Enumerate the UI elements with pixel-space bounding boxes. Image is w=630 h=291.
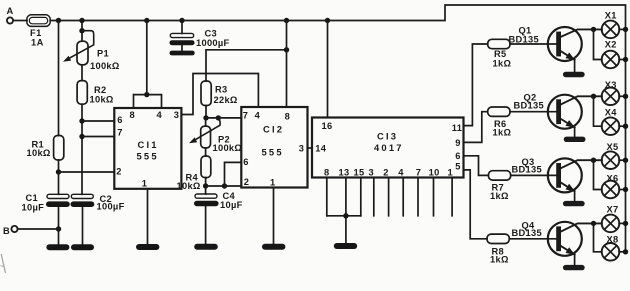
svg-text:BD135: BD135 [512,228,542,238]
transistor Q1 [509,26,602,78]
lamp X2 [602,40,629,69]
wire R3 top feed from CI2 pin 8 line [206,50,287,81]
svg-text:4: 4 [398,168,404,178]
resistor R1 [54,136,64,161]
wire CI2 pin 3 to CI3 pin 14 [308,147,313,149]
wire CI3 pin 16 to rail [327,21,329,118]
node A terminal [7,17,13,23]
ground below C1 [46,244,69,250]
svg-text:100µF: 100µF [97,202,125,212]
svg-text:BD135: BD135 [512,165,542,175]
svg-text:4: 4 [255,110,261,120]
lamp X6 [602,174,629,199]
wire CI3 pin 11 to R5 [464,44,488,126]
wire bracket joining CI1 pins 8 and 4 [134,95,162,108]
lamp X5 [602,142,629,169]
resistor R5 [488,39,510,48]
node junction on pin 8 line [284,47,289,52]
resistor R2 [77,81,87,105]
svg-text:A: A [7,6,14,16]
wire R5 to Q1 base [510,43,557,45]
wire node to CI2 pin 2 [206,185,242,187]
svg-text:1A: 1A [31,38,44,48]
svg-text:1: 1 [142,178,147,188]
op-amp U2 box: IC CI2 555 [241,107,307,188]
wire R8 to Q4 base [509,238,557,240]
potentiometer P2 [205,118,207,126]
svg-text:1kΩ: 1kΩ [490,255,509,265]
svg-text:X5: X5 [607,142,619,152]
svg-text:BD135: BD135 [514,100,544,110]
svg-text:1kΩ: 1kΩ [493,127,512,137]
capacitor C2 [71,194,93,198]
resistor R6 [488,107,510,116]
svg-text:X7: X7 [607,205,619,215]
svg-text:CI3: CI3 [377,131,398,142]
svg-text:X4: X4 [605,108,618,118]
svg-text:16: 16 [322,121,333,131]
wire rail down to R1 [58,21,60,136]
svg-text:10µF: 10µF [220,200,243,210]
node junction pin 6 [79,118,84,123]
node B terminal [11,226,17,232]
wire R1 to node [58,160,60,194]
ground below C2 [71,244,94,250]
svg-text:13: 13 [339,168,350,178]
wire branch to X8 [594,223,602,251]
wire R6 to Q2 base [510,111,557,113]
wire B to C1 node [18,228,59,230]
ground below CI2 [262,244,285,250]
svg-text:10kΩ: 10kΩ [90,94,114,104]
svg-text:P1: P1 [97,49,109,59]
wire branch to CI2 pin 6 [225,162,242,186]
resistor R4 [201,156,211,178]
wire CI3 pin 4 stub [402,178,404,216]
wire CI3 pin 3 stub [373,178,375,216]
wire R7 to Q3 base [511,174,557,176]
capacitor C3 [181,21,183,34]
transistor Q2 [514,93,602,142]
lamp X8 [602,234,629,260]
wire branch to X4 [594,96,602,126]
svg-text:8: 8 [324,168,329,178]
wire joining pins 8,13,15 [327,215,361,217]
wire node to CI2 pin 7 [206,117,241,119]
wire branch to X6 [594,160,602,189]
svg-text:2: 2 [383,168,388,178]
node junction rail-R1 [56,18,61,23]
node bracket junction [144,92,149,97]
wire rail down to P1 [81,21,83,42]
capacitor C1 [47,194,69,198]
wire CI3 pin 7 stub [417,178,419,216]
svg-text:CI1: CI1 [138,139,159,150]
node junction P2 wiper [216,115,221,120]
svg-text:555: 555 [262,146,284,157]
node junction R4/C4 [203,183,208,188]
svg-text:2: 2 [244,177,249,187]
svg-text:F1: F1 [30,28,42,38]
resistor R3 [201,81,211,106]
ground below CI3 [334,243,357,249]
IC CI3 4017 box [312,118,464,178]
scan artifact mark bottom-left [1,254,5,273]
svg-text:1000µF: 1000µF [196,38,230,48]
wire CI3 pin 2 stub [388,178,390,216]
svg-text:1kΩ: 1kΩ [490,191,509,201]
wire CI1 pin 1 to ground [147,189,149,244]
lamp X3 [602,80,629,105]
wire pin 2 of CI1 [59,171,115,173]
svg-text:7: 7 [243,110,248,120]
wire CI2 pin 8 to rail [286,21,288,108]
svg-text:CI2: CI2 [263,124,284,135]
node R1/C1/pin2 junction [56,169,61,174]
ground below C3 [170,51,195,56]
svg-text:6: 6 [117,115,122,125]
op-amp U1 box: IC CI1 555 [114,108,181,189]
svg-text:10: 10 [429,168,440,178]
node junction X5/X6 branch [591,158,596,163]
svg-text:C3: C3 [205,28,217,38]
svg-text:1kΩ: 1kΩ [493,59,512,69]
node junction R3/P2 [203,115,208,120]
svg-text:B: B [3,226,10,236]
node P1 wiper junction [79,28,84,33]
svg-text:5: 5 [455,161,460,171]
svg-text:8: 8 [130,110,135,120]
lamp X7 [602,205,629,233]
svg-text:3: 3 [369,168,374,178]
wire CI3 pin 10 stub [433,178,435,216]
svg-text:2: 2 [116,167,121,177]
node junction rail-CI2 pin 8 [284,18,289,23]
wire CI3 pin 6 to R7 [464,156,489,176]
lamp X1 [602,10,629,38]
wire pin 7 of CI1 [82,136,114,138]
svg-text:1: 1 [448,168,453,178]
ground below C4 [194,244,218,250]
svg-text:6: 6 [243,157,248,167]
svg-text:6: 6 [455,151,460,161]
transistor Q3 [512,157,602,206]
svg-text:100kΩ: 100kΩ [90,61,120,71]
wire bracket to rail [146,21,148,95]
fuse F1 [27,15,50,27]
wire CI3 pin 15 stub [360,178,362,216]
wire P2 to R4 [205,148,207,156]
svg-text:22kΩ: 22kΩ [214,95,238,105]
svg-text:9: 9 [455,138,460,148]
wire CI3 pin 9 to R6 [464,112,488,143]
wire R2 down to C2 [81,104,83,194]
svg-text:3: 3 [174,110,179,120]
wire CI3 pin 8 stub [326,178,328,216]
svg-text:7: 7 [416,168,421,178]
wire R3 to node [205,106,207,118]
wire pin 6 of CI1 [82,120,114,122]
node junction X7/X8 branch [591,221,596,226]
wire top supply rail [50,5,625,252]
svg-text:10kΩ: 10kΩ [177,181,201,191]
transistor Q4 [512,220,602,270]
wire CI3 pin 5 to R8 [464,170,488,239]
node junction pin 13 ground node [343,213,348,218]
svg-text:555: 555 [137,150,159,161]
svg-text:11: 11 [452,123,462,133]
wire CI3 pin 13 stub [345,178,347,244]
svg-text:X1: X1 [605,10,617,20]
potentiometer P1 [77,41,88,65]
wire CI3 pin 1 stub [451,178,453,216]
lamp X4 [602,108,629,135]
svg-text:1: 1 [270,177,275,187]
wire A to fuse [13,20,27,22]
svg-text:10kΩ: 10kΩ [27,148,51,158]
svg-text:15: 15 [354,168,365,178]
ground below CI1 [136,244,159,250]
svg-text:R3: R3 [215,85,227,95]
node junction pin 7 [79,134,84,139]
svg-text:10µF: 10µF [22,203,45,213]
node junction rail-CI3 pin 16 [325,18,330,23]
node junction X3/X4 branch [591,94,596,99]
node junction pin 6 branch [222,183,227,188]
svg-text:14: 14 [315,143,326,153]
svg-text:3: 3 [299,143,304,153]
node junction rail-CI1 pins 8,4 [144,18,149,23]
svg-text:100kΩ: 100kΩ [213,143,243,153]
svg-text:X2: X2 [605,40,617,50]
svg-text:7: 7 [117,128,122,138]
svg-text:8: 8 [285,111,290,121]
svg-text:4017: 4017 [374,142,404,153]
wire CI1 pin 3 to CI2 pin 4 [181,74,258,115]
node B junction [56,226,61,231]
svg-text:BD135: BD135 [509,34,539,44]
wire CI2 pin 1 to ground [273,188,275,244]
svg-text:4: 4 [157,110,163,120]
wire branch to X2 [594,29,602,59]
node junction X1/X2 branch [591,27,596,32]
wire C2 to ground [82,207,84,244]
wire R4 to node [205,178,207,186]
wire P1 to R2 [81,65,83,81]
resistor R7 [488,171,510,180]
node junction rail-P1 [79,18,84,23]
node junction rail-C3 [179,18,184,23]
wire C1 to ground [58,207,60,244]
capacitor C4 [205,186,207,194]
resistor R8 [487,234,509,243]
